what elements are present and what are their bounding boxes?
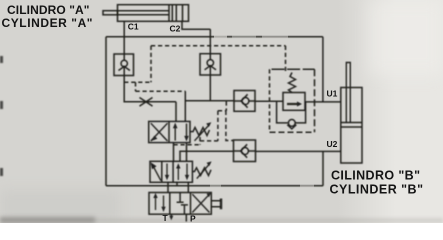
valve V3 cell dividers <box>170 193 191 215</box>
wire C1 drop <box>123 21 125 54</box>
valve V3 body <box>149 193 211 215</box>
svg-text:CYLINDER "B": CYLINDER "B" <box>330 183 424 197</box>
svg-text:C1: C1 <box>128 22 139 32</box>
wire V1 to V2 left <box>173 143 175 162</box>
wire V2 tank stub <box>176 182 178 186</box>
left edge scan ticks <box>0 56 3 63</box>
svg-text:U2: U2 <box>327 139 338 149</box>
pilot under V1 <box>174 144 201 146</box>
wire line to CV3 <box>185 100 234 102</box>
orifice restrictor <box>140 98 153 107</box>
bottom edge band <box>0 218 443 223</box>
P port line <box>185 214 187 221</box>
check valve CV2 box <box>200 54 221 75</box>
wire left bus <box>105 37 107 186</box>
wire top bus drop to U1 <box>322 37 324 102</box>
scan fade on bottom bus <box>300 183 314 190</box>
valve V2 body <box>150 161 192 182</box>
wire V1 port B riser <box>184 91 186 121</box>
wire top bus <box>106 36 323 38</box>
wire to valve V1 port A <box>175 102 177 122</box>
wire V2 to V3 left <box>167 182 169 192</box>
cylinder A piston <box>169 5 172 22</box>
T port arrow <box>169 214 173 220</box>
pilot box left leg <box>150 46 152 83</box>
bypass check branch right <box>295 102 305 123</box>
svg-text:CILINDRO "A": CILINDRO "A" <box>7 3 90 17</box>
wire relief out to U1 <box>305 101 341 103</box>
check valve CV4 <box>234 144 256 157</box>
cylinder A rod lines inside body <box>118 11 170 15</box>
wire CV3 to relief valve <box>255 100 283 102</box>
relief enclosure bottom <box>270 131 315 133</box>
wire C2 drop <box>209 29 211 54</box>
valve V3 side connector <box>211 199 221 210</box>
valve V3 left cell arrows <box>153 193 165 212</box>
pilot run to V1 riser <box>136 90 186 92</box>
relief enclosure top <box>272 68 315 70</box>
cylinder B rod <box>346 63 350 123</box>
svg-text:C2: C2 <box>170 23 181 33</box>
relief valve RV box <box>283 93 305 111</box>
valve V3 closed centre <box>177 193 188 215</box>
valve V1 adjustable spring <box>190 122 211 141</box>
scan background light right side <box>338 0 443 223</box>
wire V1 to mid bus <box>186 143 188 162</box>
check valve CV2 <box>205 54 216 75</box>
pilot drop to CV4 <box>226 111 234 141</box>
pilot tap to CV1 line <box>124 81 151 83</box>
valve V1 body <box>149 121 190 142</box>
relief enclosure right <box>314 69 316 132</box>
valve V1 crossed arrows <box>151 123 169 141</box>
cylinder A cap lines <box>176 5 182 22</box>
pilot cross link <box>218 110 226 112</box>
wire U2 line <box>256 150 341 152</box>
cylinder A rod <box>103 11 118 15</box>
check valve CV3 box <box>234 91 255 112</box>
bypass check branch left <box>277 102 288 123</box>
pilot drop left <box>217 111 219 141</box>
valve V2 right arrows <box>176 163 189 180</box>
svg-text:T: T <box>163 213 169 223</box>
relief valve flow arrow <box>287 103 299 105</box>
pilot link V1 spring <box>199 137 201 145</box>
relief enclosure left <box>269 69 271 132</box>
wire mid bus corner <box>180 151 234 161</box>
valve V1 cell divider <box>168 121 170 142</box>
wire CV1 outlet <box>124 76 176 102</box>
wire V2 to V3 right <box>187 182 189 192</box>
wire C2 stub <box>182 21 210 29</box>
bottom scan smear <box>0 217 95 223</box>
pilot jog down <box>135 82 137 91</box>
cylinder B body <box>341 88 362 164</box>
pilot box right leg to spring <box>285 46 287 73</box>
scan fade on top bus <box>214 33 227 41</box>
check valve CV1 box <box>114 54 134 76</box>
pilot hang from CV3 line <box>225 101 227 110</box>
valve V2 diagonal arrow <box>151 162 161 180</box>
valve V2 adjustable spring <box>192 161 211 178</box>
valve V1 parallel arrows <box>173 123 189 142</box>
svg-text:P: P <box>190 214 196 224</box>
wire bottom bus <box>106 185 323 187</box>
check valve CV1 <box>119 54 130 76</box>
cylinder B piston <box>341 123 362 128</box>
bypass check valve <box>287 120 296 129</box>
dashed pilot lines <box>124 46 314 145</box>
wire CV2 outlet <box>209 75 211 101</box>
valve V3 crossed cell <box>192 193 211 213</box>
valve V2 cell dividers <box>162 161 173 182</box>
svg-text:U1: U1 <box>327 89 338 99</box>
svg-text:CILINDRO "B": CILINDRO "B" <box>331 168 420 182</box>
svg-text:CYLINDER "A": CYLINDER "A" <box>2 16 93 30</box>
cylinder A body <box>118 5 189 22</box>
pilot box top <box>151 45 286 47</box>
wire U2 branch down <box>322 151 324 185</box>
pilot run to V1 spring <box>200 140 218 142</box>
valve V2 centre arrow <box>165 164 169 181</box>
check valve CV4 box <box>234 140 256 162</box>
relief valve spring <box>289 73 296 93</box>
check valve CV3 <box>234 94 255 107</box>
